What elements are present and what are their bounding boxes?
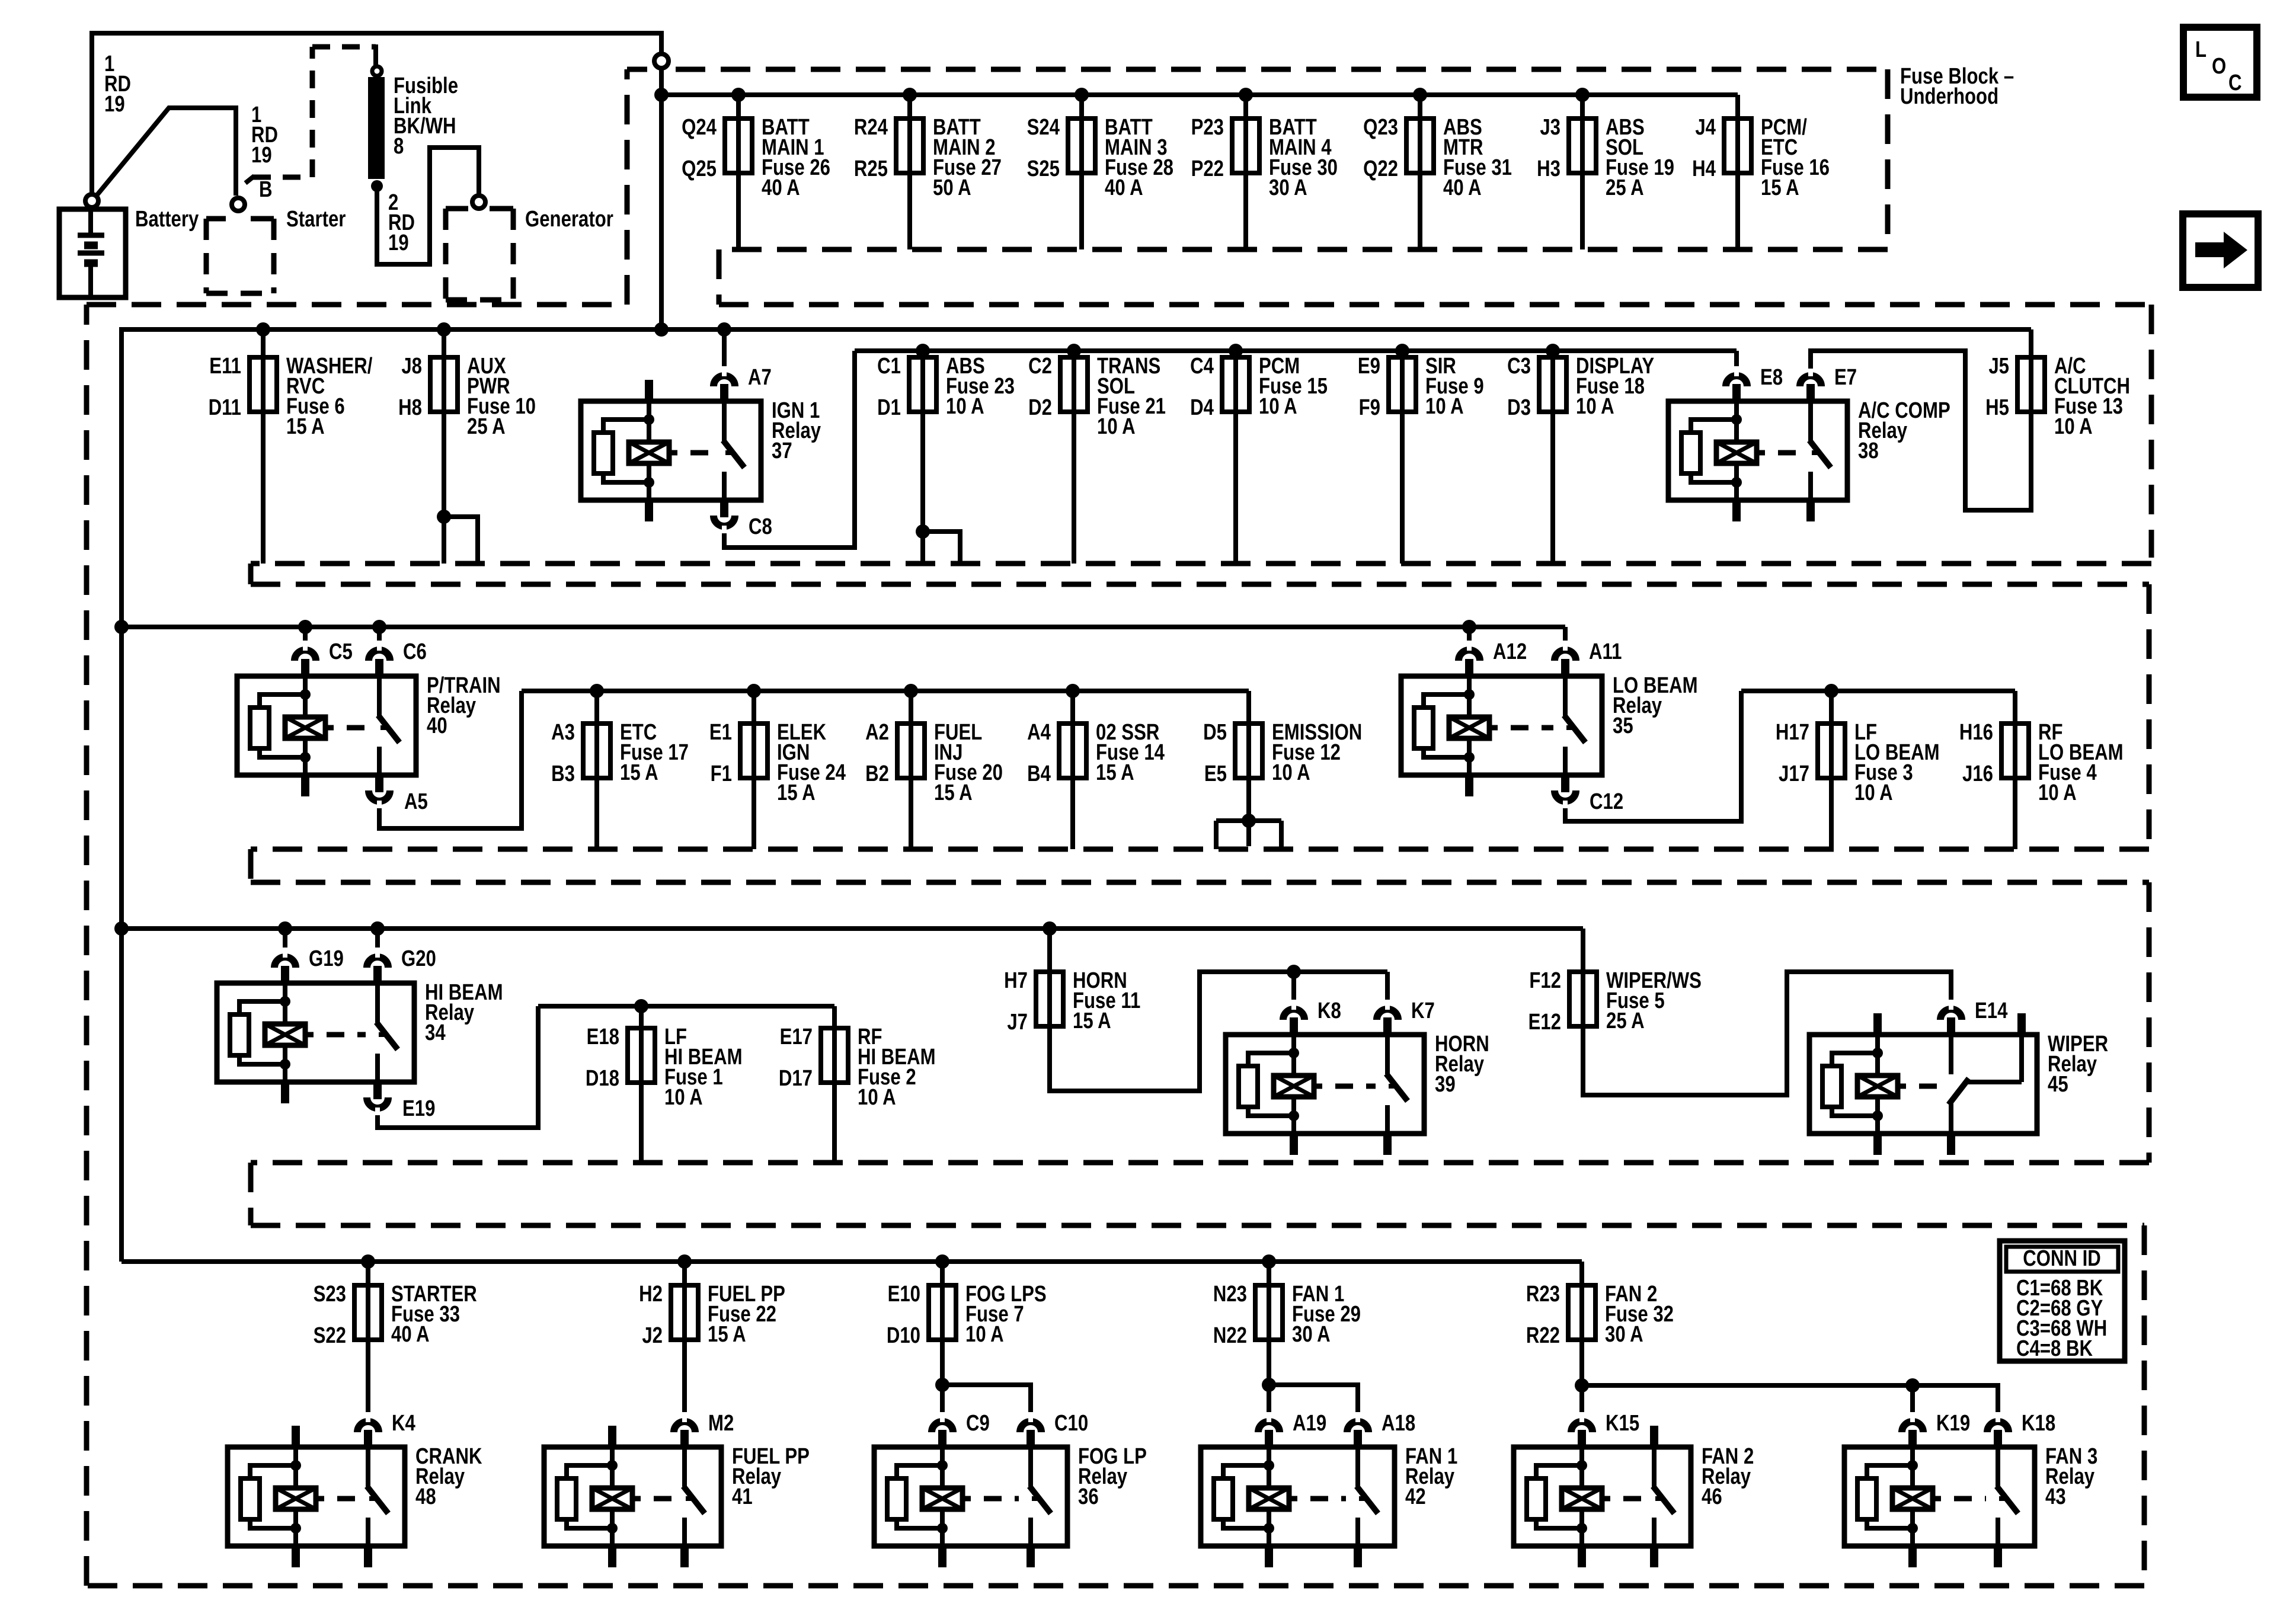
connector M2 <box>674 1422 695 1432</box>
svg-text:C1: C1 <box>877 354 901 379</box>
wire bus row4 <box>121 926 1583 931</box>
node bus4 trunk junction <box>114 921 129 936</box>
svg-text:37: 37 <box>772 438 792 463</box>
wire ign1 output to bus row2b <box>724 351 855 548</box>
svg-text:J7: J7 <box>1007 1010 1028 1035</box>
node battery positive terminal <box>85 194 98 207</box>
wire C6 riser <box>377 627 382 643</box>
svg-text:E10: E10 <box>888 1282 920 1307</box>
relay FAN 2 Relay 46 <box>1514 1447 1691 1546</box>
svg-text:43: 43 <box>2045 1484 2066 1509</box>
relay P/TRAIN Relay 40 <box>237 676 416 775</box>
svg-text:10 A: 10 A <box>1259 394 1297 419</box>
svg-text:N23: N23 <box>1213 1282 1247 1307</box>
svg-text:N22: N22 <box>1213 1323 1247 1348</box>
fuse F6 WASHER/RVC <box>261 329 266 357</box>
fuse F1 LF HI BEAM <box>639 1006 644 1028</box>
svg-text:Q25: Q25 <box>682 156 717 181</box>
connector C9 <box>932 1422 953 1432</box>
svg-text:Q23: Q23 <box>1363 115 1398 140</box>
label wire 1 RD 19 (left) <box>104 52 114 76</box>
wire bus row3 <box>121 625 1565 629</box>
svg-text:K18: K18 <box>2022 1411 2055 1436</box>
svg-text:10 A: 10 A <box>946 394 984 419</box>
fuse block boundary - left jog ch34 <box>248 849 254 882</box>
wire emission fuse output jog <box>1246 778 1251 846</box>
node bus1 tap <box>1575 88 1590 102</box>
svg-text:50 A: 50 A <box>933 175 971 200</box>
node bus1 tap <box>903 88 917 102</box>
connector C6 <box>369 650 390 661</box>
svg-text:A5: A5 <box>404 789 428 814</box>
wire bus row2b <box>855 348 1737 353</box>
wire horn fuse output to relay feeds <box>1050 972 1387 1091</box>
svg-text:C8: C8 <box>749 514 772 539</box>
connector E7 <box>1800 376 1821 386</box>
svg-text:D10: D10 <box>887 1323 920 1348</box>
svg-text:46: 46 <box>1702 1484 1722 1509</box>
node bus1 tap <box>1075 88 1089 102</box>
wire bus row2a <box>121 329 2031 1262</box>
fuse block boundary - band4 right edge <box>2147 882 2152 1163</box>
svg-text:S24: S24 <box>1027 115 1060 140</box>
svg-text:H4: H4 <box>1692 156 1716 181</box>
wire starter fuse to K4 <box>366 1340 370 1414</box>
svg-text:B3: B3 <box>551 761 575 786</box>
node bus2a taps <box>256 322 270 337</box>
svg-text:34: 34 <box>425 1020 446 1045</box>
relay CRANK Relay 48 <box>228 1447 405 1546</box>
wire fan1 fuse to A19/A18 branch <box>1267 1340 1271 1414</box>
svg-text:A19: A19 <box>1293 1411 1326 1436</box>
svg-text:39: 39 <box>1435 1072 1456 1097</box>
svg-text:10 A: 10 A <box>1576 394 1614 419</box>
wire fusible link top lead <box>373 44 378 65</box>
node aux pwr output jog <box>437 510 451 524</box>
fuse block boundary - band3 top <box>251 582 2149 587</box>
svg-text:D3: D3 <box>1507 395 1531 420</box>
svg-text:S23: S23 <box>314 1282 346 1307</box>
svg-text:H2: H2 <box>639 1282 663 1307</box>
svg-text:25 A: 25 A <box>467 414 506 439</box>
fuse F7 FOG LPS <box>940 1262 945 1285</box>
fuse block boundary - band5 right edge <box>2142 1225 2147 1586</box>
battery G1 <box>59 209 126 297</box>
fuse F31 ABS MTR <box>1418 95 1422 119</box>
relay WIPER Relay 45 <box>1809 1035 2037 1134</box>
svg-text:H17: H17 <box>1776 720 1809 745</box>
fuse F4 RF LO BEAM <box>2013 691 2017 724</box>
svg-text:C5: C5 <box>329 639 353 664</box>
svg-text:40 A: 40 A <box>762 175 800 200</box>
svg-text:J5: J5 <box>1988 354 2009 379</box>
connector C12 <box>1555 790 1576 801</box>
connector A11 <box>1555 650 1576 661</box>
svg-text:C3: C3 <box>1507 354 1531 379</box>
node bus3b tap <box>1066 684 1080 698</box>
wire bus row3c <box>1741 689 2015 693</box>
svg-text:J17: J17 <box>1779 761 1809 786</box>
svg-text:19: 19 <box>388 231 409 255</box>
wire main trunk down to bus rows <box>659 69 664 329</box>
svg-text:R22: R22 <box>1526 1323 1560 1348</box>
svg-text:38: 38 <box>1858 438 1879 463</box>
wire A11 riser <box>1563 627 1568 643</box>
svg-text:Starter: Starter <box>286 207 346 232</box>
label Generator <box>525 207 613 232</box>
svg-text:K8: K8 <box>1318 998 1341 1023</box>
wire lo beam output to bus3c <box>1565 691 1741 821</box>
node bus2b tap <box>916 344 930 358</box>
fuse block boundary - band2 top <box>87 302 627 308</box>
connector K8 <box>1283 1009 1304 1020</box>
wire G19 riser <box>283 929 287 950</box>
svg-text:40 A: 40 A <box>1443 175 1482 200</box>
legend CONN ID table <box>2000 1241 2125 1361</box>
svg-text:30 A: 30 A <box>1292 1322 1331 1347</box>
fuse block boundary - left edge <box>84 305 89 1586</box>
svg-text:C12: C12 <box>1590 789 1623 814</box>
wire battery to starter diagonal <box>94 108 236 199</box>
svg-text:O: O <box>2212 54 2226 79</box>
connector E19 <box>367 1097 388 1108</box>
svg-text:19: 19 <box>251 143 272 168</box>
fuse F21 TRANS SOL <box>1072 412 1076 564</box>
fuse F27 BATT MAIN 2 <box>907 95 912 119</box>
fuse block boundary - band3 bottom <box>251 847 2149 852</box>
relay A/C COMP Relay 38 <box>1668 401 1847 500</box>
svg-text:R24: R24 <box>854 115 888 140</box>
fuse F30 BATT MAIN 4 <box>1243 95 1248 119</box>
svg-text:C2: C2 <box>1028 354 1052 379</box>
svg-text:C4: C4 <box>1190 354 1214 379</box>
svg-text:30 A: 30 A <box>1269 175 1307 200</box>
fuse F26 BATT MAIN 1 <box>736 95 741 119</box>
svg-text:G20: G20 <box>401 946 436 971</box>
fuse block boundary - band2 bottom <box>251 561 2151 566</box>
wire wiper fuse output to wiper relay <box>1583 972 1951 1095</box>
svg-text:F1: F1 <box>711 761 732 786</box>
fuse F12 EMISSION <box>1246 691 1251 724</box>
svg-text:10 A: 10 A <box>1425 394 1464 419</box>
wire ign1 relay feed A7 <box>722 329 727 369</box>
node generator terminal <box>472 196 485 209</box>
svg-text:J8: J8 <box>401 354 422 379</box>
svg-text:K15: K15 <box>1606 1411 1639 1436</box>
svg-text:E12: E12 <box>1528 1010 1561 1035</box>
svg-text:8: 8 <box>394 134 404 159</box>
fuse F22 FUEL PP <box>682 1262 687 1285</box>
relay FOG LP Relay 36 <box>874 1447 1067 1546</box>
svg-text:S25: S25 <box>1027 156 1060 181</box>
connector K15 <box>1571 1422 1593 1432</box>
svg-text:D2: D2 <box>1028 395 1052 420</box>
label wire 2 RD 19 <box>388 190 398 215</box>
generator G2 (dashed outline) <box>446 206 468 212</box>
svg-text:30 A: 30 A <box>1605 1322 1643 1347</box>
svg-text:25 A: 25 A <box>1606 1009 1645 1033</box>
legend arrow box <box>2183 214 2258 287</box>
fuse F9 SIR <box>1400 412 1405 564</box>
fuse F10 AUX PWR <box>442 329 446 357</box>
node bus1-trunk junction <box>654 88 669 102</box>
svg-text:E9: E9 <box>1358 354 1380 379</box>
svg-text:E8: E8 <box>1760 365 1783 390</box>
svg-text:C: C <box>2228 71 2242 95</box>
svg-text:15 A: 15 A <box>1073 1009 1111 1033</box>
svg-text:15 A: 15 A <box>934 780 973 805</box>
svg-text:40 A: 40 A <box>1105 175 1143 200</box>
relay FUEL PP Relay 41 <box>544 1447 721 1546</box>
svg-text:K19: K19 <box>1936 1411 1970 1436</box>
svg-text:A11: A11 <box>1589 639 1622 664</box>
svg-text:CONN ID: CONN ID <box>2023 1246 2101 1271</box>
fuse block boundary - band5 top <box>251 1223 2144 1228</box>
svg-text:10 A: 10 A <box>664 1085 703 1110</box>
wire bus row4b <box>538 1004 834 1009</box>
connector A18 <box>1347 1422 1368 1432</box>
connector A5 <box>369 790 390 801</box>
node splice on main feed <box>654 54 669 68</box>
fuse block boundary - bottom edge <box>87 1583 2144 1589</box>
connector C5 <box>295 650 316 661</box>
wire bus row5 <box>121 1259 1582 1264</box>
relay FAN 1 Relay 42 <box>1201 1447 1395 1546</box>
fuse F5 WIPER/WS <box>1581 929 1585 972</box>
wire fog fuse to C9/C10 branch <box>940 1340 945 1414</box>
connector K4 <box>357 1422 379 1432</box>
node bus2b tap <box>1546 344 1560 358</box>
svg-text:10 A: 10 A <box>1272 760 1310 785</box>
relay IGN 1 Relay 37 <box>581 401 761 500</box>
node bus1 tap <box>731 88 746 102</box>
svg-text:45: 45 <box>2048 1072 2068 1097</box>
svg-text:Q22: Q22 <box>1363 156 1398 181</box>
label Starter <box>286 207 346 232</box>
fuse F28 BATT MAIN 3 <box>1079 95 1084 119</box>
svg-text:Underhood: Underhood <box>1900 84 1998 109</box>
node abs fuse output jog <box>916 524 930 539</box>
wire ptrain output to bus3b <box>379 691 522 828</box>
fuse F3 LF LO BEAM <box>1829 691 1834 724</box>
svg-text:42: 42 <box>1405 1484 1426 1509</box>
connector G19 <box>274 957 296 968</box>
connector K19 <box>1902 1422 1923 1432</box>
label Fuse Block - Underhood <box>1900 64 2014 89</box>
svg-text:10 A: 10 A <box>2054 414 2093 439</box>
svg-text:E19: E19 <box>402 1096 435 1121</box>
svg-text:L: L <box>2195 37 2207 62</box>
svg-text:E1: E1 <box>709 720 732 745</box>
svg-text:R25: R25 <box>854 156 888 181</box>
fuse block boundary - left jog ch45 <box>248 1163 254 1225</box>
label terminal B <box>259 177 273 202</box>
fuse block underhood boundary - row1 box <box>625 69 630 305</box>
node bus1 tap <box>1239 88 1253 102</box>
svg-text:B4: B4 <box>1027 761 1051 786</box>
node bus3b tap <box>904 684 918 698</box>
svg-text:15 A: 15 A <box>286 414 325 439</box>
svg-text:D11: D11 <box>209 395 241 420</box>
wire A/C clutch fuse to E7 <box>1811 351 2031 510</box>
svg-text:E18: E18 <box>587 1025 619 1049</box>
connector K7 <box>1377 1009 1398 1020</box>
svg-text:E11: E11 <box>209 354 241 379</box>
svg-text:S22: S22 <box>314 1323 346 1348</box>
svg-text:H7: H7 <box>1004 968 1028 993</box>
wire K19 riser <box>1910 1385 1915 1414</box>
label Battery <box>135 207 199 232</box>
connector K18 <box>1987 1422 2009 1432</box>
relay HORN Relay 39 <box>1226 1035 1424 1134</box>
svg-text:15 A: 15 A <box>708 1322 746 1347</box>
svg-text:15 A: 15 A <box>1096 760 1134 785</box>
svg-text:C6: C6 <box>403 639 427 664</box>
wire G20 riser <box>375 929 380 950</box>
svg-text:P22: P22 <box>1191 156 1224 181</box>
svg-text:15 A: 15 A <box>1761 175 1799 200</box>
svg-text:Generator: Generator <box>525 207 613 232</box>
fuse F32 FAN 2 <box>1579 1262 1584 1285</box>
node starter B terminal <box>232 198 245 211</box>
node bus3b tap <box>747 684 761 698</box>
svg-text:41: 41 <box>732 1484 753 1509</box>
label Fusible Link BK/WH 8 <box>394 73 458 98</box>
relay FAN 3 Relay 43 <box>1844 1447 2035 1546</box>
svg-text:G19: G19 <box>309 946 344 971</box>
fuse F14 02 SSR <box>1070 691 1075 724</box>
fusible link F1 BK/WH <box>368 77 385 179</box>
fuse F23 ABS <box>920 412 925 564</box>
node bus1 tap <box>1413 88 1427 102</box>
fuse F19 ABS SOL <box>1580 95 1585 119</box>
svg-text:40: 40 <box>427 713 447 738</box>
svg-text:19: 19 <box>104 92 125 117</box>
fuse block boundary - band2 right edge <box>2149 305 2154 558</box>
svg-text:C10: C10 <box>1054 1411 1088 1436</box>
wire bus row3b <box>522 689 1249 693</box>
label wire 1 RD 19 (starter) <box>251 103 261 127</box>
fuse F16 PCM/ETC <box>1735 95 1740 119</box>
fuse block boundary - band4 bottom <box>251 1160 2149 1166</box>
svg-text:D17: D17 <box>779 1066 813 1091</box>
svg-text:J2: J2 <box>642 1323 663 1348</box>
wire 2 RD 19 to generator <box>377 148 479 264</box>
svg-text:C4=8 BK: C4=8 BK <box>2016 1336 2093 1361</box>
svg-text:B2: B2 <box>865 761 889 786</box>
svg-text:A18: A18 <box>1382 1411 1415 1436</box>
connector A19 <box>1258 1422 1280 1432</box>
svg-text:C9: C9 <box>966 1411 990 1436</box>
svg-text:10 A: 10 A <box>965 1322 1004 1347</box>
connector C8 <box>714 516 735 526</box>
fuse F29 FAN 1 <box>1267 1262 1271 1285</box>
svg-text:D4: D4 <box>1190 395 1214 420</box>
starter motor (dashed outline) <box>206 216 226 222</box>
svg-text:M2: M2 <box>708 1411 734 1436</box>
connector G20 <box>367 957 388 968</box>
relay HI BEAM Relay 34 <box>217 983 414 1082</box>
svg-text:H3: H3 <box>1537 156 1560 181</box>
wire E8 feed from bus2b <box>1734 351 1739 369</box>
connector C10 <box>1020 1422 1041 1432</box>
wire fan2 fuse output branch <box>1579 1340 1584 1414</box>
svg-text:A7: A7 <box>748 365 772 390</box>
fuse block boundary - band3 right edge <box>2147 584 2152 849</box>
fuse block boundary - band4 top <box>251 880 2149 885</box>
svg-text:H8: H8 <box>398 395 422 420</box>
svg-text:E7: E7 <box>1834 365 1857 390</box>
svg-text:10 A: 10 A <box>2038 780 2077 805</box>
svg-text:15 A: 15 A <box>620 760 658 785</box>
svg-text:A3: A3 <box>551 720 575 745</box>
fuse F11 HORN <box>1047 929 1052 972</box>
svg-text:E17: E17 <box>780 1025 813 1049</box>
svg-text:R23: R23 <box>1526 1282 1560 1307</box>
svg-text:A4: A4 <box>1027 720 1051 745</box>
node bus3b tap <box>590 684 604 698</box>
wire dashed tick to B <box>245 176 254 183</box>
fusible link dashed routing <box>253 175 312 180</box>
node junction below fusible link <box>371 180 383 192</box>
svg-text:E5: E5 <box>1204 761 1227 786</box>
fuse F18 DISPLAY <box>1550 412 1555 564</box>
svg-text:B: B <box>259 177 273 202</box>
svg-text:Q24: Q24 <box>682 115 717 140</box>
connector E8 <box>1726 376 1747 386</box>
svg-text:J3: J3 <box>1540 115 1560 140</box>
fuse F24 ELEK IGN <box>752 691 756 724</box>
connector A12 <box>1459 650 1480 661</box>
wire K8 riser <box>1291 972 1296 1002</box>
svg-text:F9: F9 <box>1359 395 1380 420</box>
svg-text:25 A: 25 A <box>1606 175 1644 200</box>
fuse F20 FUEL INJ <box>909 691 913 724</box>
svg-text:48: 48 <box>415 1484 436 1509</box>
wire A12 riser <box>1467 627 1472 643</box>
svg-text:H16: H16 <box>1959 720 1993 745</box>
legend LOC box <box>2183 27 2257 97</box>
fuse F17 ETC <box>594 691 599 724</box>
svg-text:D5: D5 <box>1203 720 1227 745</box>
svg-text:K7: K7 <box>1411 998 1435 1023</box>
node bus2b tap <box>1067 344 1081 358</box>
wire battery feed riser <box>92 33 661 196</box>
svg-text:D18: D18 <box>586 1066 619 1091</box>
fuse F33 STARTER <box>366 1262 370 1285</box>
svg-text:E14: E14 <box>1975 998 2008 1023</box>
connector E14 <box>1940 1009 1962 1020</box>
fuse F15 PCM <box>1233 412 1238 564</box>
connector A7 <box>714 376 735 386</box>
node bus2b tap <box>1395 344 1409 358</box>
wire bus row1 (battery main) <box>661 92 1738 97</box>
relay LO BEAM Relay 35 <box>1401 676 1602 775</box>
svg-text:10 A: 10 A <box>1097 414 1136 439</box>
svg-text:K4: K4 <box>392 1411 415 1436</box>
svg-text:40 A: 40 A <box>391 1322 430 1347</box>
svg-text:36: 36 <box>1078 1484 1099 1509</box>
svg-text:P23: P23 <box>1191 115 1224 140</box>
svg-text:H5: H5 <box>1985 395 2009 420</box>
svg-text:15 A: 15 A <box>777 780 816 805</box>
fuse block boundary - left jog ch23 <box>248 564 254 584</box>
svg-text:A12: A12 <box>1493 639 1527 664</box>
node bus3 trunk junction <box>114 620 129 634</box>
svg-text:D1: D1 <box>877 395 901 420</box>
svg-text:A2: A2 <box>865 720 889 745</box>
svg-text:35: 35 <box>1613 713 1633 738</box>
